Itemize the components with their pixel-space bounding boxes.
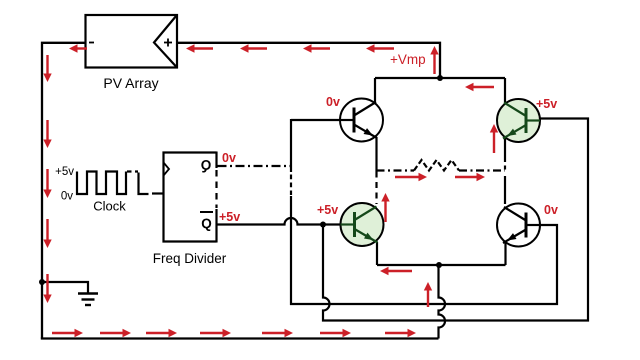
current arrow center down-wire up [427,289,429,308]
current arrows load [395,176,421,178]
PV minus terminal [89,42,94,44]
transistor Q3 bottom-left [341,203,384,246]
svg-text:0v: 0v [222,151,236,165]
wire TL emitter down [375,137,377,172]
PV Array box [86,15,178,68]
current arrow +Vmp up [433,53,435,75]
wire BL emitter down [376,242,378,265]
svg-text:PV Array: PV Array [103,75,158,91]
IC Freq Divider box [164,153,217,242]
current arrows top rail [193,47,214,49]
current arrows bottom rail [52,332,77,334]
wire TR emitter down [504,138,506,162]
transistor Q2 top-right [497,99,540,142]
wire +5v down with hop, right, up to Q2 base [323,119,588,321]
svg-text:0v: 0v [544,203,558,217]
wire BR emitter down [504,243,506,266]
resistor load zigzag [414,160,459,171]
wire +5v from Qbar with hop [217,218,341,224]
PV plus terminal [164,42,172,44]
wire load dash-dot left [377,169,415,171]
transistor Q4 bottom-right [497,204,540,247]
PV Array chevron [154,16,177,68]
svg-text:0v: 0v [61,191,73,203]
wire bridge center down with hops [439,265,446,339]
clock input wedge [164,163,170,176]
wire 0v vertical [290,119,292,172]
svg-text:Clock: Clock [93,199,126,214]
wire BR collector up [504,176,506,204]
svg-text:+5v: +5v [536,97,557,111]
wire bottom rail [41,337,439,339]
wire bridge bottom rail [377,264,506,266]
current arrow bridge top [472,86,495,88]
ground symbol [78,292,98,294]
wire PV- to left rail [42,43,86,339]
svg-text:+5v: +5v [55,166,74,178]
current arrow top rail near PV [76,47,88,49]
svg-text:+5v: +5v [317,203,338,217]
current arrow Q3 collector up [384,200,386,223]
node +5v junction [320,222,326,228]
svg-text:0v: 0v [326,95,340,109]
svg-text:Q: Q [201,158,212,173]
wire bridge top rail [375,77,505,79]
wire Q1 base left [291,119,340,121]
svg-text:+Vmp: +Vmp [390,52,426,67]
svg-text:Q: Q [201,216,212,231]
wire to ground [42,282,88,293]
wire clock to divider [152,192,164,194]
node bridge bottom junction [436,262,442,268]
svg-text:Freq Divider: Freq Divider [153,251,227,266]
wire Q output 0v dash-dot [218,165,293,167]
current arrow Q2 emitter up [493,131,495,154]
clock waveform [77,172,126,195]
wire load dash-dot right [459,169,505,171]
wire top rail PV+ to Vmp [177,43,440,78]
wire TL collector up [374,78,376,103]
current arrow bridge bottom left [387,270,413,272]
wire 0v horizontal to Q4 base [290,225,557,304]
current arrows left rail down [46,55,48,76]
wire right mid dash [504,166,506,172]
svg-text:+5v: +5v [219,210,240,224]
wire TR collector up [504,78,506,103]
node ground junction [39,279,45,285]
wire left mid dashed (to BL collector) [375,172,377,205]
node +Vmp junction [437,75,443,81]
transistor Q1 top-left [340,99,383,142]
